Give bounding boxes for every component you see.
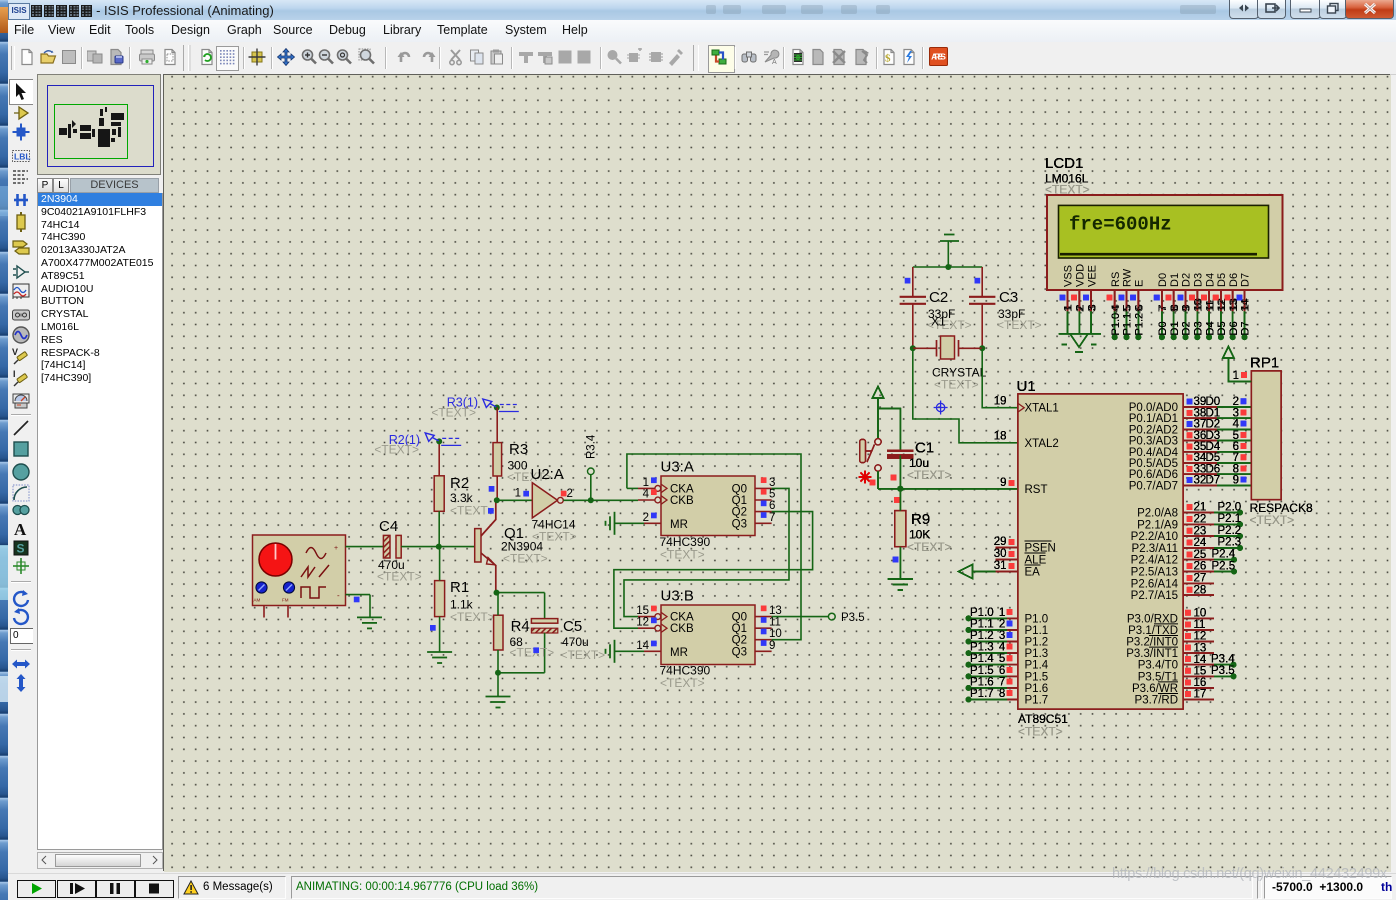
svg-text:29: 29	[994, 536, 1007, 548]
svg-text:32: 32	[1194, 475, 1207, 487]
svg-text:3: 3	[1233, 407, 1239, 419]
svg-text:31: 31	[994, 560, 1007, 572]
svg-text:P1.2: P1.2	[970, 630, 994, 642]
svg-text:12: 12	[636, 617, 649, 629]
svg-text:CKA: CKA	[670, 483, 694, 495]
svg-text:<TEXT>: <TEXT>	[561, 648, 606, 662]
svg-text:P2.1: P2.1	[1218, 513, 1242, 525]
svg-text:<TEXT>: <TEXT>	[907, 468, 952, 482]
svg-text:D3: D3	[1193, 273, 1205, 287]
svg-text:P1.0: P1.0	[970, 607, 994, 619]
svg-text:P1.7: P1.7	[1025, 695, 1049, 707]
svg-text:D6: D6	[1206, 463, 1221, 475]
svg-text:<TEXT>: <TEXT>	[374, 443, 419, 457]
svg-text:P1.7: P1.7	[970, 688, 994, 700]
svg-text:C5: C5	[563, 618, 582, 635]
svg-text:I: I	[13, 369, 16, 379]
svg-text:13: 13	[1228, 300, 1240, 312]
svg-text:27: 27	[1194, 573, 1207, 585]
svg-text:P2.6/A14: P2.6/A14	[1131, 578, 1179, 590]
svg-text:U1: U1	[1017, 378, 1036, 395]
svg-text:fre=600Hz: fre=600Hz	[1069, 214, 1172, 236]
svg-text:6: 6	[1233, 441, 1239, 453]
svg-text:7: 7	[1233, 452, 1239, 464]
svg-text:5: 5	[1233, 430, 1239, 442]
svg-text:7: 7	[999, 676, 1005, 688]
svg-text:R3: R3	[509, 441, 528, 458]
svg-text:D7: D7	[1206, 475, 1221, 487]
svg-text:<TEXT>: <TEXT>	[1018, 725, 1063, 739]
svg-text:P0.1/AD1: P0.1/AD1	[1129, 413, 1178, 425]
svg-text:R3.4: R3.4	[586, 434, 598, 459]
svg-text:P2.3/A11: P2.3/A11	[1132, 543, 1178, 555]
svg-text:5: 5	[999, 653, 1005, 665]
svg-text:P2.7/A15: P2.7/A15	[1131, 590, 1178, 602]
svg-text:16: 16	[1194, 677, 1207, 689]
svg-text:D0: D0	[1157, 273, 1169, 287]
svg-text:P2.0/A8: P2.0/A8	[1137, 508, 1178, 520]
svg-text:26: 26	[1194, 561, 1207, 573]
svg-text:VEE: VEE	[1086, 265, 1098, 287]
svg-text:E: E	[1134, 280, 1146, 287]
svg-text:D0: D0	[1206, 396, 1221, 408]
svg-text:4: 4	[1233, 419, 1240, 431]
svg-text:14: 14	[636, 640, 649, 652]
svg-text:9: 9	[769, 640, 775, 652]
svg-text:P1.4: P1.4	[970, 653, 994, 665]
svg-text:13: 13	[769, 605, 782, 617]
svg-text:<TEXT>: <TEXT>	[907, 540, 952, 554]
svg-text:2: 2	[643, 512, 649, 524]
svg-text:10: 10	[769, 628, 782, 640]
svg-text:11: 11	[1204, 301, 1216, 312]
svg-text:P1.1: P1.1	[970, 618, 994, 630]
svg-text:+: +	[334, 545, 338, 552]
svg-text:30: 30	[994, 548, 1007, 560]
svg-text:P0.0/AD0: P0.0/AD0	[1129, 402, 1178, 414]
svg-text:P0.3/AD3: P0.3/AD3	[1129, 436, 1178, 448]
svg-text:EA: EA	[1025, 567, 1041, 579]
svg-text:C2: C2	[929, 289, 948, 306]
svg-text:P2.3: P2.3	[1218, 537, 1242, 549]
svg-text:2: 2	[567, 488, 573, 500]
svg-text:6: 6	[999, 665, 1005, 677]
svg-text:<TEXT>: <TEXT>	[503, 552, 548, 566]
svg-text:D7: D7	[1240, 321, 1252, 335]
svg-text:<TEXT>: <TEXT>	[934, 378, 979, 392]
svg-text:D4: D4	[1204, 321, 1216, 335]
svg-text:36: 36	[1194, 430, 1207, 442]
svg-text:P1.5: P1.5	[970, 665, 994, 677]
svg-text:S: S	[17, 542, 25, 556]
svg-text:CKB: CKB	[670, 495, 694, 507]
svg-text:U3:A: U3:A	[661, 459, 694, 476]
svg-text:R2: R2	[450, 475, 469, 492]
svg-text:Q2: Q2	[732, 507, 747, 519]
svg-text:25: 25	[1194, 549, 1207, 561]
svg-text:CKA: CKA	[670, 612, 694, 624]
svg-text:P1.4: P1.4	[1025, 660, 1049, 672]
svg-text:3: 3	[769, 477, 775, 489]
svg-text:18: 18	[994, 431, 1007, 443]
svg-text:P2.4/A12: P2.4/A12	[1131, 555, 1178, 567]
svg-text:8: 8	[999, 688, 1005, 700]
svg-text:Q3: Q3	[732, 646, 747, 658]
svg-text:P0.5/AD5: P0.5/AD5	[1129, 458, 1178, 470]
svg-text:33: 33	[1194, 463, 1207, 475]
svg-text:4: 4	[643, 489, 650, 501]
svg-text:<TEXT>: <TEXT>	[431, 406, 476, 420]
svg-text:6: 6	[769, 500, 775, 512]
svg-text:FM: FM	[282, 598, 289, 603]
svg-text:D2: D2	[1206, 419, 1221, 431]
svg-text:D1: D1	[1206, 407, 1221, 419]
svg-text:2: 2	[1233, 396, 1239, 408]
svg-text:C1: C1	[915, 440, 934, 457]
svg-text:39: 39	[1194, 396, 1207, 408]
svg-text:5: 5	[1122, 306, 1134, 312]
svg-text:6: 6	[1134, 306, 1146, 312]
svg-text:P1.2: P1.2	[1025, 637, 1049, 649]
svg-text:1: 1	[1233, 370, 1239, 382]
svg-text:D5: D5	[1216, 321, 1228, 335]
svg-text:V: V	[12, 347, 18, 357]
svg-text:38: 38	[1194, 407, 1207, 419]
svg-text:P0.6/AD6: P0.6/AD6	[1129, 469, 1178, 481]
svg-text:11: 11	[1194, 619, 1206, 631]
svg-text:$: $	[885, 53, 891, 65]
svg-text:<TEXT>: <TEXT>	[377, 570, 422, 584]
svg-text:U3:B: U3:B	[661, 588, 694, 605]
svg-text:P3.3/INT1: P3.3/INT1	[1126, 648, 1178, 660]
svg-text:C4: C4	[379, 518, 398, 535]
svg-text:P1.2: P1.2	[1134, 313, 1146, 336]
svg-text:3: 3	[1086, 306, 1098, 312]
svg-text:U2:A: U2:A	[531, 466, 564, 483]
svg-text:D7: D7	[1240, 273, 1252, 287]
svg-text:D6: D6	[1228, 321, 1240, 335]
svg-text:7: 7	[769, 512, 775, 524]
svg-text:MR: MR	[670, 647, 688, 659]
svg-text:1: 1	[515, 488, 521, 500]
svg-text:13: 13	[1194, 642, 1207, 654]
svg-text:MR: MR	[670, 519, 688, 531]
svg-text:C3: C3	[999, 289, 1018, 306]
svg-text:D1: D1	[1169, 273, 1181, 287]
svg-text:12: 12	[1216, 300, 1228, 312]
svg-text:P1.0: P1.0	[1025, 613, 1049, 625]
svg-text:<TEXT>: <TEXT>	[510, 646, 555, 660]
svg-text:<TEXT>: <TEXT>	[1250, 513, 1295, 527]
svg-text:D3: D3	[1193, 321, 1205, 335]
svg-text:P1.5: P1.5	[1025, 671, 1049, 683]
svg-text:P2.1/A9: P2.1/A9	[1137, 519, 1178, 531]
svg-text:P0.7/AD7: P0.7/AD7	[1129, 480, 1178, 492]
svg-text:P2.2/A10: P2.2/A10	[1131, 531, 1178, 543]
svg-text:Q0: Q0	[732, 483, 747, 495]
svg-text:P1.0: P1.0	[1110, 313, 1122, 336]
svg-text:15: 15	[636, 605, 649, 617]
svg-text:P0.2/AD2: P0.2/AD2	[1129, 424, 1178, 436]
svg-text:Q2: Q2	[732, 635, 747, 647]
svg-text:22: 22	[1194, 514, 1207, 526]
svg-text:P1.6: P1.6	[970, 676, 994, 688]
svg-text:<TEXT>: <TEXT>	[997, 318, 1042, 332]
svg-text:19: 19	[994, 396, 1007, 408]
svg-text:1: 1	[643, 477, 649, 489]
svg-text:D5: D5	[1206, 452, 1221, 464]
svg-text:A: A	[14, 520, 27, 539]
svg-text:D6: D6	[1228, 273, 1240, 287]
svg-text:24: 24	[1194, 537, 1207, 549]
svg-text:8: 8	[1233, 463, 1239, 475]
svg-text:P2.5/A13: P2.5/A13	[1131, 567, 1178, 579]
svg-text:Q1: Q1	[732, 623, 747, 635]
svg-text:9: 9	[1181, 306, 1193, 312]
svg-text:11: 11	[769, 617, 781, 629]
svg-text:D2: D2	[1181, 321, 1193, 335]
svg-text:37: 37	[1194, 419, 1207, 431]
svg-text:LBL: LBL	[14, 152, 31, 162]
svg-text:RS: RS	[1110, 272, 1122, 287]
svg-text:D4: D4	[1204, 273, 1216, 287]
svg-text:P3.4/T0: P3.4/T0	[1138, 660, 1178, 672]
svg-text:14: 14	[1194, 654, 1207, 666]
svg-text:RST: RST	[1025, 484, 1048, 496]
svg-text:35: 35	[1194, 441, 1207, 453]
svg-text:10: 10	[1194, 608, 1207, 620]
svg-text:4: 4	[999, 642, 1006, 654]
svg-text:CKB: CKB	[670, 623, 694, 635]
svg-text:D5: D5	[1216, 273, 1228, 287]
svg-text:3: 3	[999, 630, 1005, 642]
svg-text:VSS: VSS	[1063, 265, 1075, 287]
svg-text:9: 9	[1233, 475, 1239, 487]
svg-text:15: 15	[1194, 666, 1207, 678]
svg-text:D3: D3	[1206, 430, 1221, 442]
svg-text:23: 23	[1194, 525, 1207, 537]
svg-text:R9: R9	[911, 511, 930, 528]
svg-text:AM: AM	[254, 598, 261, 603]
svg-text:D0: D0	[1157, 321, 1169, 335]
svg-text:ARES: ARES	[931, 52, 946, 62]
svg-text:<TEXT>: <TEXT>	[660, 676, 705, 690]
svg-text:P2.5: P2.5	[1212, 560, 1236, 572]
svg-text:10: 10	[1193, 300, 1205, 312]
svg-text:P1.1: P1.1	[1122, 313, 1134, 336]
svg-text:28: 28	[1194, 584, 1207, 596]
svg-text:RW: RW	[1122, 268, 1134, 287]
svg-text:XTAL2: XTAL2	[1025, 438, 1059, 450]
svg-text:RP1: RP1	[1250, 355, 1279, 372]
svg-text:D4: D4	[1206, 441, 1221, 453]
svg-text:8: 8	[1169, 306, 1181, 312]
svg-text:17: 17	[1194, 689, 1207, 701]
svg-text:<TEXT>: <TEXT>	[532, 530, 577, 544]
svg-text:1: 1	[1063, 306, 1075, 312]
svg-text:P3.5: P3.5	[841, 612, 865, 624]
svg-text:P3.5: P3.5	[1211, 665, 1235, 677]
svg-text:2: 2	[999, 618, 1005, 630]
svg-text:9: 9	[1000, 477, 1006, 489]
svg-text:Q3: Q3	[732, 518, 747, 530]
svg-text:P1.3: P1.3	[1025, 648, 1049, 660]
svg-text:12: 12	[1194, 631, 1207, 643]
svg-text:Q1: Q1	[732, 495, 747, 507]
svg-text:P1.1: P1.1	[1025, 625, 1049, 637]
svg-text:P0.4/AD4: P0.4/AD4	[1129, 447, 1179, 459]
svg-text:P2.2: P2.2	[1218, 525, 1242, 537]
svg-text:P1.6: P1.6	[1025, 683, 1049, 695]
svg-text:<TEXT>: <TEXT>	[660, 548, 705, 562]
svg-text:VDD: VDD	[1075, 264, 1087, 287]
svg-text:21: 21	[1194, 502, 1207, 514]
svg-text:14: 14	[1240, 300, 1252, 312]
svg-text:<TEXT>: <TEXT>	[450, 504, 495, 518]
svg-text:P2.0: P2.0	[1218, 501, 1242, 513]
svg-text:D2: D2	[1181, 273, 1193, 287]
svg-text:XTAL1: XTAL1	[1025, 403, 1059, 415]
svg-text:5: 5	[769, 489, 775, 501]
svg-text:1: 1	[999, 607, 1005, 619]
svg-text:X1: X1	[931, 315, 946, 329]
svg-text:2: 2	[1075, 306, 1087, 312]
svg-text:P3.4: P3.4	[1211, 654, 1235, 666]
svg-text:P3.7/RD: P3.7/RD	[1135, 695, 1178, 707]
svg-text:R4: R4	[511, 618, 530, 635]
svg-text:470u: 470u	[562, 635, 589, 649]
svg-text:7: 7	[1157, 306, 1169, 312]
svg-text:-: -	[337, 591, 340, 600]
svg-text:D1: D1	[1169, 321, 1181, 335]
svg-text:P2.4: P2.4	[1212, 549, 1236, 561]
svg-text:R1: R1	[450, 579, 469, 596]
svg-text:4: 4	[1110, 306, 1122, 312]
svg-text:<TEXT>: <TEXT>	[450, 610, 495, 624]
svg-text:Q0: Q0	[732, 612, 747, 624]
svg-text:A: A	[772, 59, 777, 66]
svg-text:LCD1: LCD1	[1045, 155, 1083, 172]
svg-text:P1.3: P1.3	[970, 642, 994, 654]
